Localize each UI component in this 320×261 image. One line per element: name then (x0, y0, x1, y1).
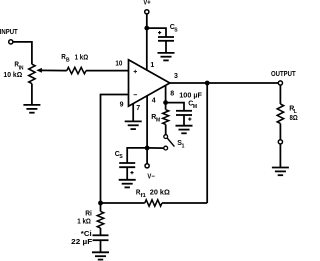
label 1 kOhm (77, 218, 91, 225)
wire feedback node to Ri (100, 203, 102, 211)
label V+ (143, 0, 150, 6)
wire output node down to Rf1 (206, 83, 208, 203)
op-amp plus input mark (134, 70, 137, 73)
wire V+ rail to CS bypass cap (147, 28, 166, 37)
pin number 7 (136, 105, 140, 112)
wire pin 8 to RM (165, 86, 167, 110)
capacitor CS2 (V- bypass) (119, 163, 135, 167)
label CS (170, 24, 178, 34)
junction dot output node (205, 81, 210, 86)
label CM (188, 101, 197, 110)
switch S1 blade (167, 138, 174, 147)
wire CS2 to ground (126, 167, 128, 180)
resistor Rf1 20k (145, 200, 162, 206)
wire pin 1 to V+ (146, 14, 148, 70)
capacitor CS (supply bypass) (158, 37, 174, 41)
ground under pin 7 (125, 121, 142, 129)
pin number 10 (115, 61, 122, 68)
wire pin 4 node to V- terminal (146, 148, 148, 164)
pin number 1 (150, 62, 154, 69)
wire CM to ground (183, 115, 185, 126)
wire terminal to ground (279, 144, 281, 168)
potentiometer RIN wiper arrow (36, 68, 67, 73)
svg-text:1 kΩ: 1 kΩ (77, 218, 91, 225)
wire RB to op-amp plus input (86, 70, 129, 72)
label 100 uF (179, 92, 202, 99)
svg-text:f1: f1 (141, 193, 147, 199)
svg-text:4: 4 (152, 97, 156, 104)
ground under RL (272, 168, 289, 176)
svg-text:V+: V+ (143, 0, 150, 6)
node INPUT terminal (9, 40, 13, 44)
capacitor Ci 22uF (93, 235, 109, 240)
svg-text:7: 7 (136, 105, 140, 112)
label INPUT (0, 29, 18, 36)
wire input to potentiometer top (13, 42, 32, 64)
switch S1 top contact (164, 135, 168, 139)
wire pin 4 node to CS2 (127, 148, 147, 163)
switch S1 bottom contact (164, 146, 168, 150)
svg-text:M: M (156, 118, 160, 124)
label V- (147, 173, 154, 180)
svg-text:Ri: Ri (85, 210, 92, 217)
ground under CS2 (119, 180, 136, 188)
label Rf1 20 kOhm (136, 189, 170, 198)
svg-text:S: S (119, 154, 123, 160)
capacitor CM (176, 111, 192, 115)
svg-text:100 µF: 100 µF (179, 92, 202, 99)
svg-text:10 kΩ: 10 kΩ (3, 72, 22, 79)
wire pin 7 (132, 103, 134, 121)
pin number 8 (170, 91, 174, 98)
svg-text:22 µF: 22 µF (71, 239, 93, 246)
label CS2 (115, 151, 124, 160)
label 10 kOhm (3, 72, 22, 79)
svg-text:8Ω: 8Ω (290, 115, 299, 122)
wire pot bottom to ground (31, 84, 33, 105)
svg-text:OUTPUT: OUTPUT (271, 71, 296, 78)
wire feedback node to Rf1 (101, 202, 145, 204)
label *Ci (81, 231, 92, 238)
ground under RIN (23, 105, 40, 113)
svg-text:M: M (193, 104, 197, 110)
op-amp minus input mark (134, 94, 137, 96)
wire OUTPUT to RL (279, 85, 281, 104)
wire RM to switch (165, 124, 167, 134)
wire Ci to ground (100, 240, 102, 252)
capacitor CS plus mark (158, 31, 161, 34)
svg-text:B: B (66, 58, 70, 64)
resistor Ri 1k (97, 211, 103, 228)
svg-text:V−: V− (147, 173, 154, 180)
label 22 uF (71, 239, 93, 246)
svg-text:3: 3 (174, 73, 178, 80)
junction dot feedback node (98, 201, 103, 206)
svg-text:10: 10 (115, 61, 122, 68)
label Ri (85, 210, 92, 217)
wire Rf1 to output vertical (162, 202, 207, 204)
label RM (151, 114, 160, 124)
wire pin 4 down (146, 96, 148, 148)
resistor RM (163, 110, 169, 125)
svg-text:*Ci: *Ci (81, 231, 92, 238)
svg-text:1 kΩ: 1 kΩ (75, 54, 89, 61)
junction dot pin 8 node (163, 100, 168, 105)
node RL return terminal (278, 140, 282, 144)
ground under CM (176, 126, 193, 134)
capacitor CS2 plus mark (130, 171, 133, 174)
ground under CS (158, 53, 175, 61)
wire RL to lower terminal (279, 124, 281, 140)
wire pin 8 node to CM (166, 103, 184, 111)
node OUTPUT terminal (278, 81, 282, 85)
svg-text:1: 1 (182, 144, 185, 150)
pin number 3 (174, 73, 178, 80)
svg-text:S: S (174, 27, 178, 33)
label OUTPUT (271, 71, 296, 78)
svg-text:INPUT: INPUT (0, 29, 18, 36)
ground under Ci (92, 252, 109, 259)
op-amp U1 triangle (129, 60, 170, 106)
wire pin 3 output (170, 82, 278, 84)
wire Ri to Ci (100, 228, 102, 235)
wire pin 4 node to switch (147, 147, 164, 149)
label S1 (177, 140, 184, 149)
label RB 1 kOhm (61, 54, 88, 64)
label RL (289, 106, 297, 115)
svg-text:1: 1 (150, 62, 154, 69)
svg-text:20 kΩ: 20 kΩ (150, 189, 170, 196)
node V+ terminal (145, 10, 149, 14)
resistor RL 8 ohm (277, 104, 283, 124)
svg-text:9: 9 (120, 101, 124, 108)
potentiometer RIN 10k body (29, 64, 35, 83)
pin number 4 (152, 97, 156, 104)
resistor RB 1k (67, 67, 86, 73)
label 8 Ohm (290, 115, 299, 122)
label RIN (14, 62, 23, 72)
junction dot V+ rail (144, 26, 149, 31)
pin number 9 (120, 101, 124, 108)
svg-text:8: 8 (170, 91, 174, 98)
wire pin 9 feedback (101, 95, 129, 204)
svg-text:IN: IN (19, 65, 24, 71)
node V- terminal (145, 164, 149, 168)
wire CS to ground (165, 41, 167, 53)
junction dot pin 4 node (145, 146, 150, 151)
capacitor CM plus mark (188, 118, 191, 121)
svg-text:L: L (294, 109, 297, 115)
